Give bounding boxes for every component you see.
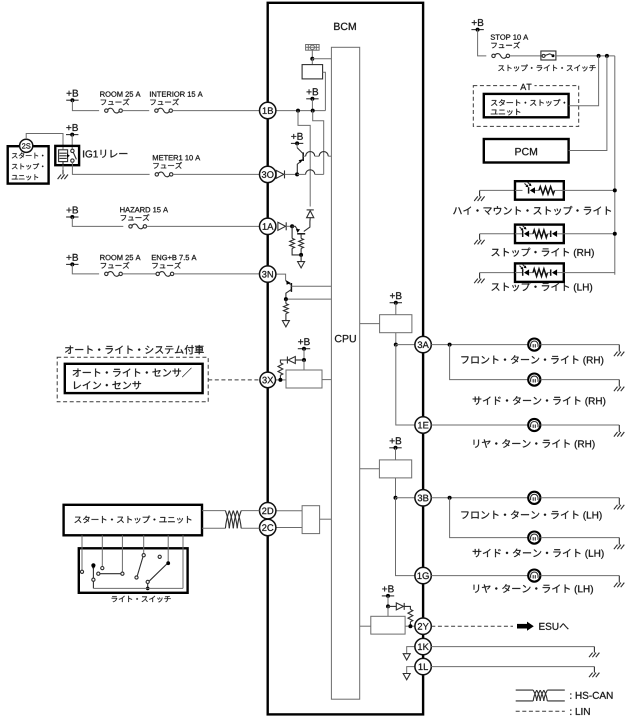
driver box (3A drv) bbox=[380, 315, 412, 333]
lamp internals (stop light LH) bbox=[515, 264, 564, 276]
driver box (3B drv) bbox=[379, 460, 411, 478]
node 1A bbox=[290, 224, 294, 228]
HS-CAN wire 2C side bbox=[202, 527, 260, 529]
power +B (2Y drv) bbox=[382, 585, 394, 598]
wire stop light LH to bus bbox=[564, 272, 615, 274]
label IG1 relay bbox=[83, 150, 127, 158]
wire fusible link to node bbox=[311, 50, 313, 59]
start-stop unit box (AT) bbox=[484, 94, 569, 117]
label side turn light LH bbox=[473, 549, 604, 559]
wire node-b to 3O rail bbox=[313, 111, 324, 175]
power +B (BCM 1B) bbox=[306, 88, 318, 101]
wire stop light RH to bus bbox=[564, 233, 615, 235]
wire blade2 to rail bbox=[146, 584, 150, 591]
label side turn light RH bbox=[473, 396, 606, 406]
wire +B to node (2Y) bbox=[387, 596, 389, 607]
start-stop unit text (AT) bbox=[491, 99, 565, 115]
node R1-R2 (1A) bbox=[299, 253, 303, 257]
fuse STOP 10 A bbox=[492, 54, 510, 59]
node 3A output bbox=[394, 343, 398, 347]
terminal 2S bbox=[20, 139, 33, 152]
light switch blade 1 bbox=[135, 557, 143, 580]
relay IG1 coil bbox=[59, 150, 70, 162]
light switch free contact bbox=[158, 555, 161, 558]
wire PCM to bus bbox=[569, 56, 607, 151]
wire node to port (1A) bbox=[300, 255, 302, 262]
CAN interface box bbox=[302, 506, 320, 534]
light switch box bbox=[79, 548, 188, 593]
terminal 1G bbox=[415, 567, 431, 583]
fuse INTERIOR 15 A bbox=[155, 108, 173, 113]
power +B (3N feed) bbox=[66, 254, 78, 267]
resistor R2 (1A) bbox=[299, 234, 304, 255]
wire 3A node down to 1E bbox=[396, 345, 415, 425]
wire front turn light LH to ground bbox=[540, 497, 619, 499]
wire relay switch to METER1 fuse bbox=[72, 162, 149, 174]
wire +B to STOP fuse bbox=[478, 30, 487, 56]
terminal 3O bbox=[260, 166, 276, 182]
wire to 3A bbox=[396, 344, 415, 346]
wire 1K port bbox=[407, 647, 415, 654]
ground (stop light LH) bbox=[474, 273, 484, 284]
lamp (rear turn light RH) bbox=[528, 419, 540, 431]
ground (stop light RH) bbox=[474, 234, 484, 245]
wire 3B to front turn LH bbox=[431, 497, 528, 499]
node +B/D4 (3X) bbox=[302, 358, 306, 362]
label stop light switch bbox=[498, 65, 595, 72]
label ESU bbox=[539, 623, 568, 630]
resistor R5 (2Y) bbox=[408, 609, 413, 626]
wire 2C to CAN interface bbox=[276, 527, 302, 529]
resistor R1 (1A) bbox=[290, 226, 301, 255]
node side branch RH bbox=[448, 343, 452, 347]
stop light switch box bbox=[541, 51, 556, 60]
label front turn light RH bbox=[461, 355, 603, 365]
label ROOM 25 A fuse (3N) bbox=[100, 255, 140, 269]
node +B (2Y) bbox=[386, 604, 390, 608]
wire ENG+B fuse to 3N bbox=[174, 273, 260, 275]
wire 3B node down to 1G bbox=[396, 498, 415, 576]
diode D3 (1A clamp) bbox=[307, 210, 314, 218]
terminal 2C bbox=[260, 519, 276, 535]
wire node to regulator box bbox=[311, 59, 313, 65]
diode D4 (3X) bbox=[287, 357, 295, 364]
ground (high-mount stop light) bbox=[474, 190, 484, 201]
legend LIN symbol bbox=[516, 710, 565, 712]
interface box (3X) bbox=[286, 370, 322, 388]
label stop light RH bbox=[492, 248, 594, 258]
lamp (side turn light LH) bbox=[528, 532, 540, 544]
wire CPU to driver (3A drv) bbox=[360, 323, 380, 325]
label ENG+B 7.5 A fuse bbox=[152, 255, 197, 269]
node side branch LH bbox=[448, 496, 452, 500]
wire Q1 collector to CPU (with hops) bbox=[303, 152, 331, 157]
CPU label bbox=[335, 335, 356, 342]
wire +B node into interface box bbox=[303, 360, 305, 370]
power +B (3B drv) bbox=[389, 437, 401, 450]
label HAZARD 15 A fuse bbox=[120, 207, 168, 221]
legend LIN text bbox=[570, 708, 589, 715]
ESU arrow bbox=[517, 622, 534, 631]
start-stop unit text bbox=[12, 153, 44, 181]
wire branch to side turn RH bbox=[450, 345, 529, 380]
label METER1 10 A fuse bbox=[153, 155, 200, 169]
wire METER1 fuse to 3O bbox=[173, 173, 260, 175]
terminal 3A bbox=[415, 336, 431, 352]
label rear turn light RH bbox=[474, 439, 595, 449]
wire driver to 2Y bbox=[405, 625, 415, 627]
lamp box (stop light RH) bbox=[515, 225, 564, 244]
lamp internals (stop light RH) bbox=[515, 226, 564, 238]
label rear turn light LH bbox=[474, 584, 593, 594]
wire branch to side turn LH bbox=[450, 498, 529, 538]
lamp box (stop light LH) bbox=[515, 263, 564, 282]
wire front turn light RH to ground bbox=[540, 344, 619, 346]
wire relay coil to ground bbox=[62, 162, 64, 170]
lamp (front turn light LH) bbox=[528, 492, 540, 504]
light switch stub 4 bbox=[142, 535, 145, 557]
AT dashed box bbox=[473, 86, 578, 127]
label auto-light system bbox=[65, 345, 204, 354]
label INTERIOR 15 A fuse bbox=[150, 92, 203, 106]
wire D5 to resistor bbox=[404, 606, 410, 609]
port symbol (1L) bbox=[403, 674, 410, 680]
power +B (BCM 3X) bbox=[298, 338, 310, 351]
label STOP 10 A fuse bbox=[491, 35, 529, 49]
wire +B to HAZARD fuse bbox=[72, 217, 123, 226]
light switch common pin bbox=[91, 563, 95, 569]
wire CPU to driver (3B drv) bbox=[360, 468, 380, 470]
wire 1B internal bus bbox=[276, 110, 326, 112]
light switch blade 2 bbox=[146, 561, 170, 583]
wire 3N to transistor bbox=[276, 274, 286, 281]
wire 3O diode to node bbox=[285, 173, 298, 175]
wire rear turn light RH to ground bbox=[540, 424, 619, 426]
PCM box bbox=[484, 139, 569, 163]
HS-CAN twist (unit) bbox=[225, 511, 241, 529]
terminal 3B bbox=[415, 490, 431, 506]
terminal 3X bbox=[260, 372, 276, 388]
port symbol (3N) bbox=[282, 321, 289, 327]
wire ground to stop light LH bbox=[480, 272, 515, 274]
fuse HAZARD 15 A bbox=[129, 224, 147, 229]
light switch stub 5 bbox=[167, 535, 169, 563]
terminal 1A bbox=[260, 218, 276, 234]
power +B (1B feed) bbox=[66, 90, 78, 103]
label light switch bbox=[112, 596, 171, 603]
power +B (BCM 3O) bbox=[291, 133, 303, 146]
LIN dashed wire (2Y) bbox=[431, 625, 513, 627]
fuse ROOM 25 A (3N) bbox=[105, 272, 123, 277]
wire 2S to IG1 relay coil bbox=[26, 134, 63, 150]
wire driver output (3A drv) bbox=[395, 333, 397, 345]
wire to 3B bbox=[396, 497, 415, 499]
wire interface to CPU (3X) bbox=[322, 379, 331, 381]
transistor Q1 (3O) bbox=[297, 148, 303, 175]
wire CPU to driver (2Y) bbox=[360, 625, 371, 627]
ground (side turn light RH) bbox=[614, 380, 624, 392]
fuse ROOM 25 A (1B) bbox=[105, 108, 123, 113]
BCM label bbox=[334, 23, 356, 30]
wire +B to ROOM fuse bbox=[72, 100, 99, 110]
start-stop unit text (bottom) bbox=[75, 516, 192, 524]
label ROOM 25 A fuse bbox=[100, 92, 140, 106]
port symbol (1A) bbox=[298, 262, 305, 268]
wire +B node into driver box (2Y) bbox=[387, 606, 389, 616]
resistor R3 (3N) bbox=[284, 299, 289, 321]
wire high-mount stop light to bus bbox=[564, 189, 615, 191]
wire D3 to Q2 collector bbox=[309, 218, 311, 222]
wire fuse to stop light switch bbox=[510, 55, 541, 57]
wire 2D to CAN interface bbox=[276, 510, 302, 512]
wire +B into relay switch bbox=[71, 135, 73, 151]
auto-light dashed box bbox=[57, 357, 208, 402]
light switch bottom rail bbox=[93, 587, 183, 589]
diode D2 (1A input) bbox=[278, 222, 286, 230]
BCM module box U1 bbox=[268, 3, 423, 715]
ground (front turn light RH) bbox=[614, 345, 624, 357]
node (fusible link junction) bbox=[310, 57, 314, 61]
fusible link symbol (BCM top) bbox=[306, 45, 320, 51]
power +B (IG1 relay) bbox=[66, 124, 78, 137]
CPU box bbox=[331, 47, 359, 699]
lamp (rear turn light LH) bbox=[528, 570, 540, 582]
node R5 output (2Y) bbox=[408, 624, 412, 628]
stop light switch contacts bbox=[542, 54, 554, 58]
ground (rear turn light LH) bbox=[614, 576, 624, 588]
wire node to D5 bbox=[388, 605, 396, 607]
node stop bus a bbox=[597, 54, 601, 58]
terminal 1L bbox=[415, 658, 431, 674]
wire 3O node to rail (with hop) bbox=[297, 170, 324, 175]
label stop light LH bbox=[492, 282, 593, 292]
wire INTERIOR fuse to 1B bbox=[173, 110, 260, 112]
wire ROOM fuse to INTERIOR fuse bbox=[122, 110, 149, 112]
driver box (2Y) bbox=[371, 616, 405, 634]
wire Q3 collector to CPU bbox=[291, 285, 331, 287]
wire node to CPU bbox=[312, 58, 331, 60]
transistor Q2 (1A) bbox=[292, 222, 310, 234]
wire 3A to front turn RH bbox=[431, 344, 528, 346]
label front turn light LH bbox=[461, 510, 601, 520]
auto-light sensor box bbox=[65, 364, 203, 393]
wire D4 to resistor bbox=[280, 360, 287, 363]
diode D5 (2Y) bbox=[396, 603, 404, 610]
lamp internals (high-mount stop light) bbox=[515, 182, 564, 194]
wire switch to bus nodes bbox=[556, 55, 615, 57]
terminal 3N bbox=[260, 266, 276, 282]
wire rear turn light LH to ground bbox=[540, 575, 619, 577]
light switch stub 1 bbox=[80, 535, 83, 573]
light switch common chain bbox=[92, 568, 95, 589]
wire 1G to rear turn LH bbox=[431, 575, 528, 577]
node 1B bus a bbox=[296, 109, 300, 113]
node 3B output bbox=[394, 496, 398, 500]
wire D4 right to +B node bbox=[295, 359, 304, 361]
terminal 2Y bbox=[415, 618, 431, 634]
wire 1A diode to node bbox=[286, 225, 292, 227]
start-stop unit box (2S) bbox=[8, 146, 49, 183]
fuse METER1 10 A bbox=[155, 172, 173, 177]
node 3X bbox=[278, 378, 282, 382]
wire side turn light RH to ground bbox=[540, 379, 619, 381]
wire ROOM to ENG+B fuse bbox=[122, 273, 157, 275]
fuse ENG+B 7.5 A bbox=[156, 272, 174, 277]
ground (1L) bbox=[589, 667, 599, 678]
wire 1K to ground bbox=[431, 646, 594, 648]
relay IG1 box bbox=[55, 146, 79, 165]
wire 3X to node bbox=[276, 379, 287, 381]
PCM label bbox=[515, 148, 537, 155]
auto-light sensor text bbox=[73, 368, 192, 390]
wire 1L port bbox=[407, 667, 415, 674]
relay IG1 switch contacts bbox=[71, 149, 77, 162]
regulator box (BCM) bbox=[302, 65, 323, 79]
legend HS-CAN text bbox=[570, 692, 612, 699]
lamp (side turn light RH) bbox=[528, 374, 540, 386]
node Q3 emitter bbox=[284, 297, 288, 301]
terminal 1B bbox=[260, 102, 276, 118]
diode D1 (3O input) bbox=[276, 170, 284, 178]
wire +B to ROOM fuse (3N) bbox=[72, 264, 99, 274]
ground (rear turn light RH) bbox=[614, 425, 624, 437]
label high-mount stop light bbox=[453, 206, 611, 215]
light switch stub 3 bbox=[121, 535, 124, 575]
wire +B to transistor emitter bbox=[296, 143, 298, 147]
wire AT unit to bus bbox=[569, 56, 599, 106]
wire ground to high-mount stop light bbox=[480, 189, 515, 191]
start-stop unit box (bottom) bbox=[64, 505, 202, 536]
legend HS-CAN symbol bbox=[516, 690, 565, 701]
HS-CAN wire 2D side bbox=[202, 510, 260, 512]
power +B (1A feed) bbox=[66, 207, 78, 220]
wire Q3 emitter to CPU bbox=[286, 298, 332, 300]
node 3O bbox=[295, 172, 299, 176]
node stop bus b bbox=[605, 54, 609, 58]
AT label bbox=[518, 82, 535, 91]
node stop RH bus bbox=[613, 232, 617, 236]
wire HAZARD fuse to 1A bbox=[147, 225, 260, 227]
wire side turn light LH to ground bbox=[540, 537, 619, 539]
ground (1K) bbox=[589, 647, 599, 658]
wire +B to driver (3B drv) bbox=[395, 448, 397, 460]
terminal 1E bbox=[415, 417, 431, 433]
lamp (front turn light RH) bbox=[528, 339, 540, 351]
wire ground to stop light RH bbox=[480, 233, 515, 235]
wire stop bus down bbox=[614, 56, 616, 275]
ground (IG1 relay) bbox=[58, 170, 68, 179]
light switch stub 6 bbox=[182, 535, 184, 588]
wire driver output (3B drv) bbox=[395, 478, 397, 498]
light switch contact pair bbox=[97, 572, 121, 575]
wire +B to diode node bbox=[303, 349, 305, 360]
wire 1L to ground bbox=[431, 666, 594, 668]
wire node-a down to diode rail bbox=[298, 111, 310, 207]
wire +B to 1B bus bbox=[311, 99, 313, 111]
light switch stub 2 bbox=[101, 535, 104, 569]
node high-mount bus bbox=[613, 188, 617, 192]
power +B (stop feed) bbox=[471, 19, 483, 32]
ground (side turn light LH) bbox=[614, 538, 624, 550]
terminal 2D bbox=[260, 503, 276, 519]
terminal 1K bbox=[415, 638, 431, 654]
wire +B to driver (3A drv) bbox=[395, 303, 397, 315]
resistor R4 (3X) bbox=[278, 363, 283, 380]
ground (front turn light LH) bbox=[614, 498, 624, 510]
LIN dashed wire to 3X bbox=[208, 379, 260, 381]
lamp box (high-mount stop light) bbox=[515, 181, 564, 200]
wire CAN interface to CPU bbox=[320, 518, 332, 520]
transistor Q3 (3N) bbox=[286, 280, 292, 299]
wire 1E to rear turn RH bbox=[431, 424, 528, 426]
node 1B bus b bbox=[311, 109, 315, 113]
wire regulator to 1B line bbox=[323, 72, 326, 110]
power +B (3A drv) bbox=[390, 292, 402, 305]
port symbol (1K) bbox=[403, 654, 410, 660]
